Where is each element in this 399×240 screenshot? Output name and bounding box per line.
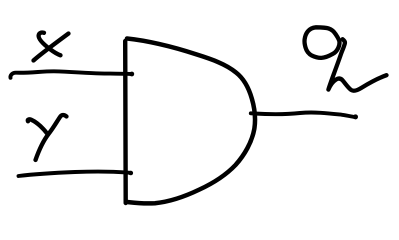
wire: input Y to U1 bbox=[19, 171, 134, 176]
output label Q bbox=[305, 27, 387, 90]
wire: U1 output to Q bbox=[251, 113, 358, 120]
AND gate U1 D-shaped body bbox=[127, 39, 255, 204]
wire: input X to U1 bbox=[10, 71, 134, 78]
input label Y bbox=[28, 115, 67, 160]
AND gate U1 left edge bbox=[123, 41, 128, 203]
input label X bbox=[34, 33, 69, 61]
